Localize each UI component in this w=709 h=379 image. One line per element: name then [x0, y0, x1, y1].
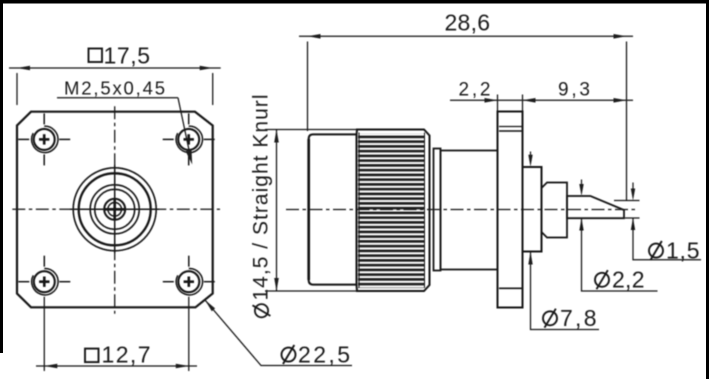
flange side — [498, 112, 523, 308]
boss cylinder 7,8 — [523, 167, 542, 252]
knurl label vertical text — [250, 95, 273, 318]
svg-text:2,2: 2,2 — [612, 267, 645, 293]
side centerline — [286, 209, 638, 211]
knurl inner edges — [358, 133, 360, 289]
page border top — [0, 0, 709, 4]
svg-text:2,2: 2,2 — [459, 80, 491, 101]
page border right — [706, 0, 709, 379]
leader diameter 1,5 tip — [614, 200, 640, 202]
dimension 28,6 — [299, 35, 633, 37]
svg-text:17,5: 17,5 — [104, 42, 151, 68]
svg-text:22,5: 22,5 — [298, 341, 350, 367]
dimension knurl 14,5 — [265, 129, 358, 131]
dimension 2,2 / 9,3 — [450, 99, 633, 101]
dimension 17,5 — [9, 68, 221, 105]
leader diameter 2,2 pin — [581, 180, 583, 186]
svg-text:9,3: 9,3 — [558, 80, 590, 101]
knurl stripes — [358, 134, 425, 289]
leader diameter 7,8 — [530, 152, 532, 157]
mid cylinder — [441, 151, 498, 270]
square symbol 17,5 — [89, 49, 103, 63]
knurl ring outline — [357, 130, 430, 292]
svg-text:12,7: 12,7 — [102, 341, 151, 367]
svg-text:M2,5x0,45: M2,5x0,45 — [64, 78, 165, 99]
hole bottom-right — [163, 256, 215, 371]
flange chamfer lines — [499, 126, 522, 128]
dimension 12,7 — [36, 365, 197, 367]
svg-text:7,8: 7,8 — [560, 305, 597, 331]
svg-text:1,5: 1,5 — [666, 237, 700, 263]
svg-text:14,5 / Straight Knurl: 14,5 / Straight Knurl — [250, 95, 273, 301]
horizontal centerline — [12, 208, 220, 210]
center circles — [73, 168, 156, 251]
vertical centerline — [114, 106, 116, 313]
leader diameter 22,5 — [205, 300, 352, 366]
page border left — [0, 0, 3, 353]
solid center cross — [70, 208, 159, 210]
hole top-left — [18, 113, 70, 165]
body cylinder front face edge — [307, 139, 310, 280]
step ring — [434, 149, 441, 271]
contact pin — [567, 196, 624, 218]
insulator bushing — [542, 183, 568, 238]
svg-text:28,6: 28,6 — [445, 10, 491, 36]
flange outline — [17, 112, 213, 308]
hole bottom-left — [18, 256, 70, 371]
hole top-right — [163, 113, 215, 165]
body cylinder — [309, 134, 357, 284]
